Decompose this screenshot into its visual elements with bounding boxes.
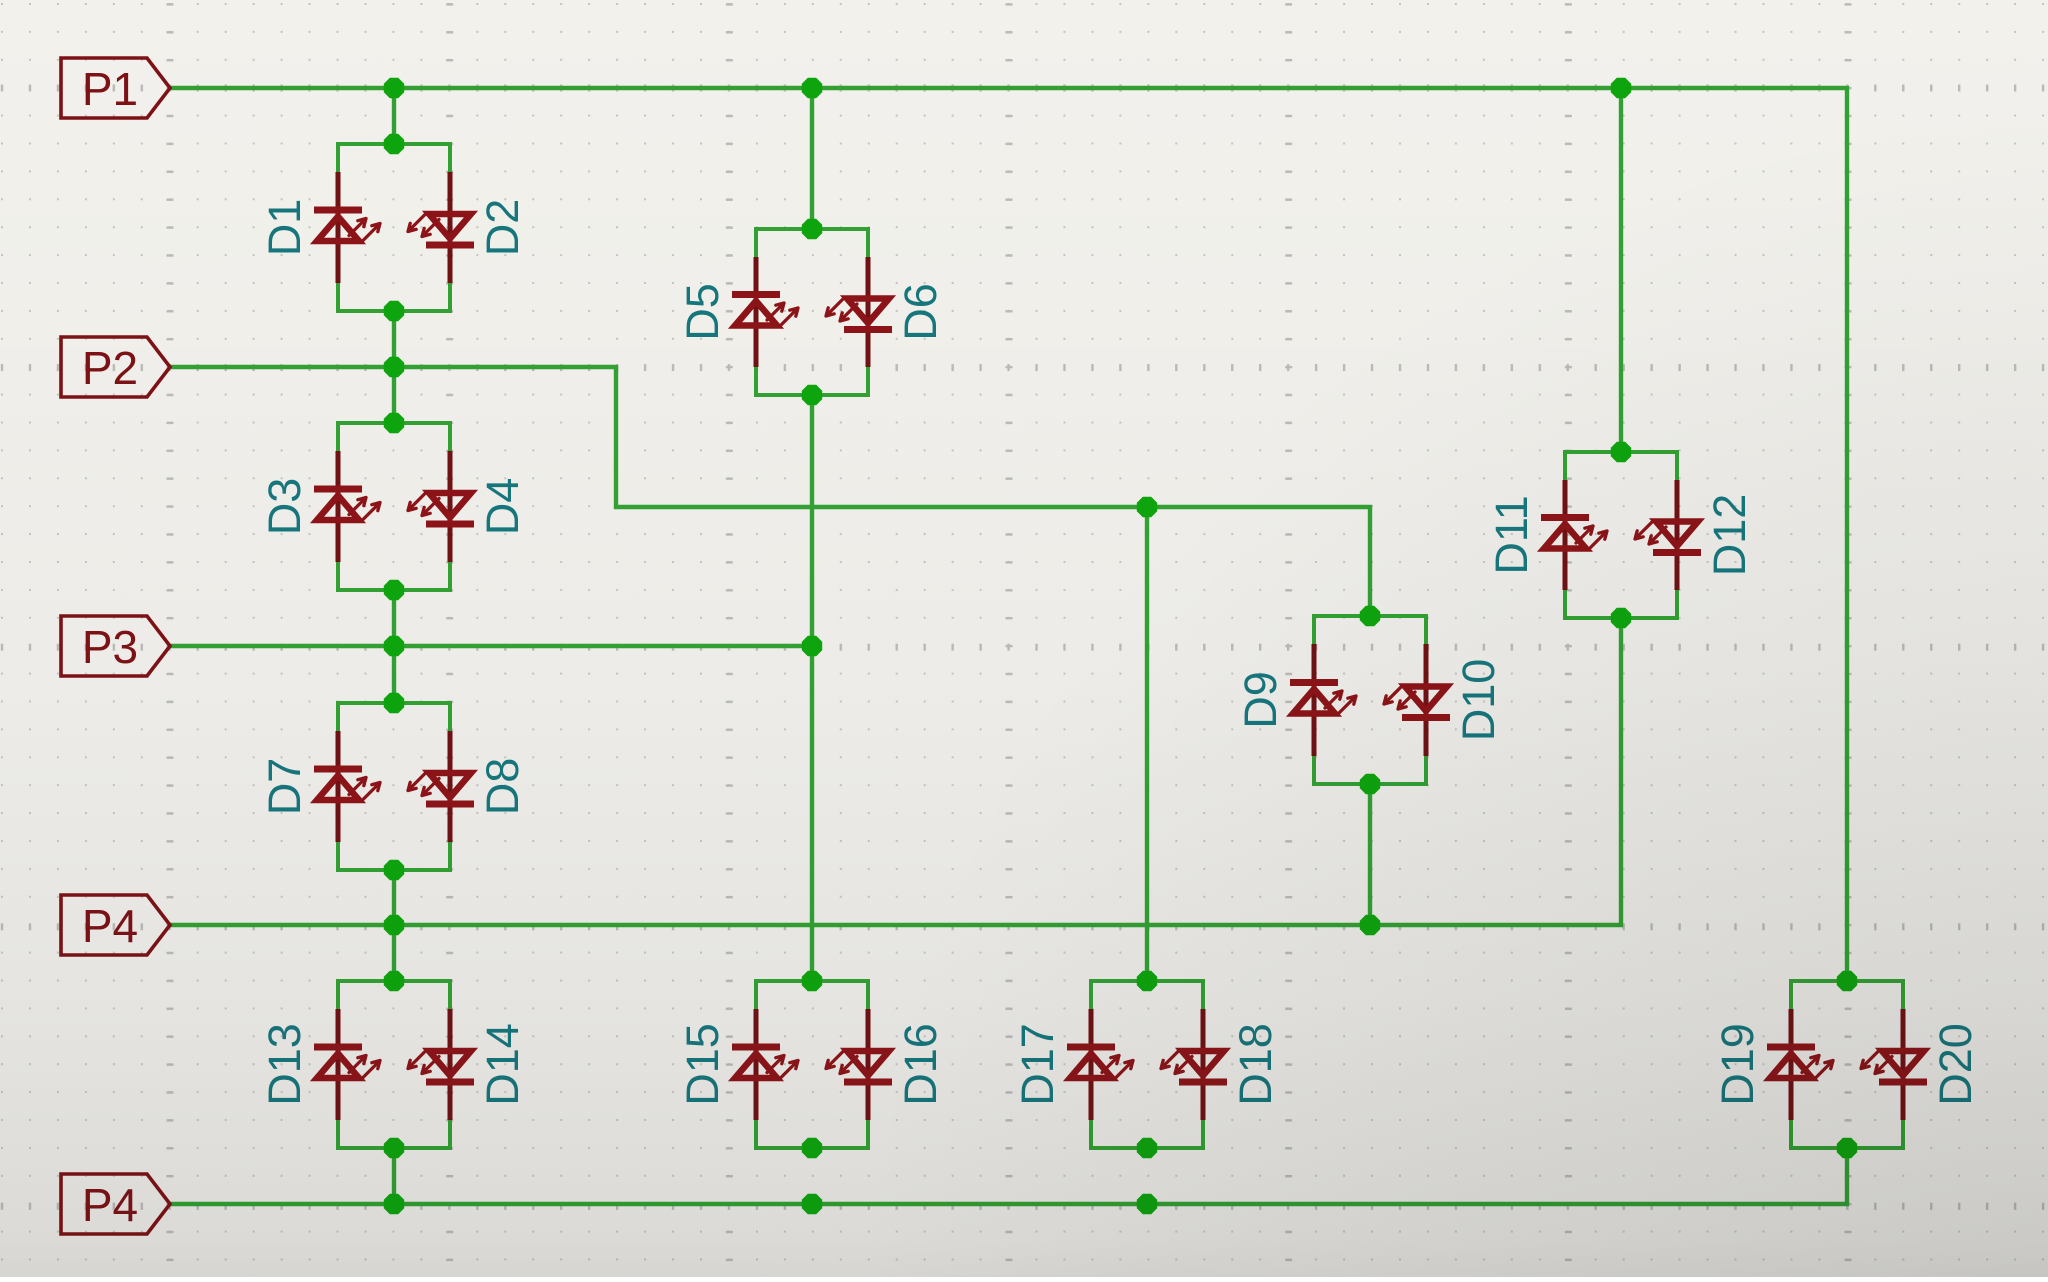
hierarchical label flag P4 at y=1204 (61, 1174, 170, 1234)
led D19 pin wire (1789, 1009, 1794, 1120)
wire D5/D6 bottom down through P3 to D15/D16 top (810, 395, 814, 981)
junction at (1621,618) (1611, 608, 1631, 628)
led D8 pin wire (448, 731, 453, 842)
junction at (394,703) (384, 693, 404, 713)
junction at (1370,616) (1360, 606, 1380, 626)
led D9 symbol (1290, 679, 1356, 714)
junction at (394,1148) (384, 1138, 404, 1158)
parallel box for D1/D2 (338, 144, 450, 311)
junction at (1147,1204) (1137, 1194, 1157, 1214)
junction at (1147,1148) (1137, 1138, 1157, 1158)
led D17 symbol (1067, 1044, 1133, 1079)
led D19 symbol (1767, 1044, 1833, 1079)
junction at (394,1204) (384, 1194, 404, 1214)
parallel box for D9/D10 (1314, 616, 1426, 784)
junction at (1147,981) (1137, 971, 1157, 991)
junction at (1621,452) (1611, 442, 1631, 462)
junction at (394,144) (384, 134, 404, 154)
led D1 pin wire (336, 172, 341, 283)
junction at (394,646) (384, 636, 404, 656)
led D9 pin wire (1312, 644, 1317, 756)
junction at (812,981) (802, 971, 822, 991)
parallel box for D13/D14 (338, 981, 450, 1148)
wire jog junction down to D17/D18 top (1145, 507, 1149, 981)
parallel box for D19/D20 (1791, 981, 1903, 1148)
junction at (394,88) (384, 78, 404, 98)
junction at (812,1204) (802, 1194, 822, 1214)
junction at (1621,88) (1611, 78, 1631, 98)
led D16 symbol (826, 1051, 892, 1086)
parallel box for D3/D4 (338, 423, 450, 590)
led D14 pin wire (448, 1009, 453, 1120)
led D5 symbol (732, 291, 798, 326)
wire D1/D2 bottom through P2 to D3/D4 top (392, 311, 396, 423)
parallel box for D5/D6 (756, 229, 868, 395)
led D20 pin wire (1901, 1009, 1906, 1120)
junction at (1147,507) (1137, 497, 1157, 517)
junction at (812,646) (802, 636, 822, 656)
wire net P4 horizontal and rise to D11/D12 bottom (170, 618, 1621, 925)
junction at (812,1148) (802, 1138, 822, 1158)
led D12 pin wire (1675, 480, 1680, 590)
led D16 pin wire (866, 1009, 871, 1120)
junction at (1847,1148) (1837, 1138, 1857, 1158)
parallel box for D15/D16 (756, 981, 868, 1148)
led D4 pin wire (448, 451, 453, 562)
led D8 symbol (408, 773, 474, 808)
led D3 pin wire (336, 451, 341, 562)
led D2 pin wire (448, 172, 453, 283)
wire D7/D8 bottom through P4 to D13/D14 top (392, 870, 396, 981)
junction at (394,311) (384, 301, 404, 321)
led D1 symbol (314, 207, 380, 242)
wire net P3 horizontal (170, 644, 812, 648)
led D7 pin wire (336, 731, 341, 842)
led D14 symbol (408, 1051, 474, 1086)
junction at (1847,981) (1837, 971, 1857, 991)
wire P1 to D5/D6 box top (810, 88, 814, 229)
led D17 pin wire (1089, 1009, 1094, 1120)
led D4 symbol (408, 493, 474, 528)
led D5 pin wire (754, 257, 759, 367)
junction at (394,423) (384, 413, 404, 433)
led D15 pin wire (754, 1009, 759, 1120)
led D7 symbol (314, 766, 380, 801)
led D13 pin wire (336, 1009, 341, 1120)
wire P1 to D1/D2 box top (392, 88, 396, 144)
junction at (812,395) (802, 385, 822, 405)
wire net P2 with jog to D9/D10 top (170, 367, 1370, 616)
junction at (394,590) (384, 580, 404, 600)
hierarchical label flag P3 at y=646 (61, 616, 170, 676)
parallel box for D7/D8 (338, 703, 450, 870)
led D18 symbol (1161, 1051, 1227, 1086)
junction at (812,229) (802, 219, 822, 239)
led D13 symbol (314, 1044, 380, 1079)
led D15 symbol (732, 1044, 798, 1079)
led D11 pin wire (1563, 480, 1568, 590)
parallel box for D11/D12 (1565, 452, 1677, 618)
led D6 symbol (826, 299, 892, 334)
junction at (812,88) (802, 78, 822, 98)
junction at (394,981) (384, 971, 404, 991)
wire D9/D10 bottom to P4 (1368, 784, 1372, 925)
led D10 pin wire (1424, 644, 1429, 756)
junction at (394,367) (384, 357, 404, 377)
junction at (1370,784) (1360, 774, 1380, 794)
parallel box for D17/D18 (1091, 981, 1203, 1148)
led D18 pin wire (1201, 1009, 1206, 1120)
hierarchical label flag P1 at y=88 (61, 58, 170, 118)
wire P1 to D11/D12 box top (1619, 88, 1623, 452)
led D12 symbol (1635, 522, 1701, 557)
wire net P1 horizontal bus and right drop to D19/D20 (170, 88, 1847, 981)
hierarchical label flag P2 at y=367 (61, 337, 170, 397)
wire D13/D14 bottom to P4 bottom bus (392, 1148, 396, 1204)
junction at (394,925) (384, 915, 404, 935)
wire D3/D4 bottom through P3 to D7/D8 top (392, 590, 396, 703)
junction at (1370,925) (1360, 915, 1380, 935)
junction at (394,870) (384, 860, 404, 880)
led D6 pin wire (866, 257, 871, 367)
hierarchical label flag P4 at y=925 (61, 895, 170, 955)
led D3 symbol (314, 486, 380, 521)
led D20 symbol (1861, 1051, 1927, 1086)
led D10 symbol (1384, 687, 1450, 722)
wire net P4 bottom bus and rise to D19/D20 bottom (170, 1148, 1847, 1204)
led D11 symbol (1541, 514, 1607, 549)
led D2 symbol (408, 214, 474, 249)
